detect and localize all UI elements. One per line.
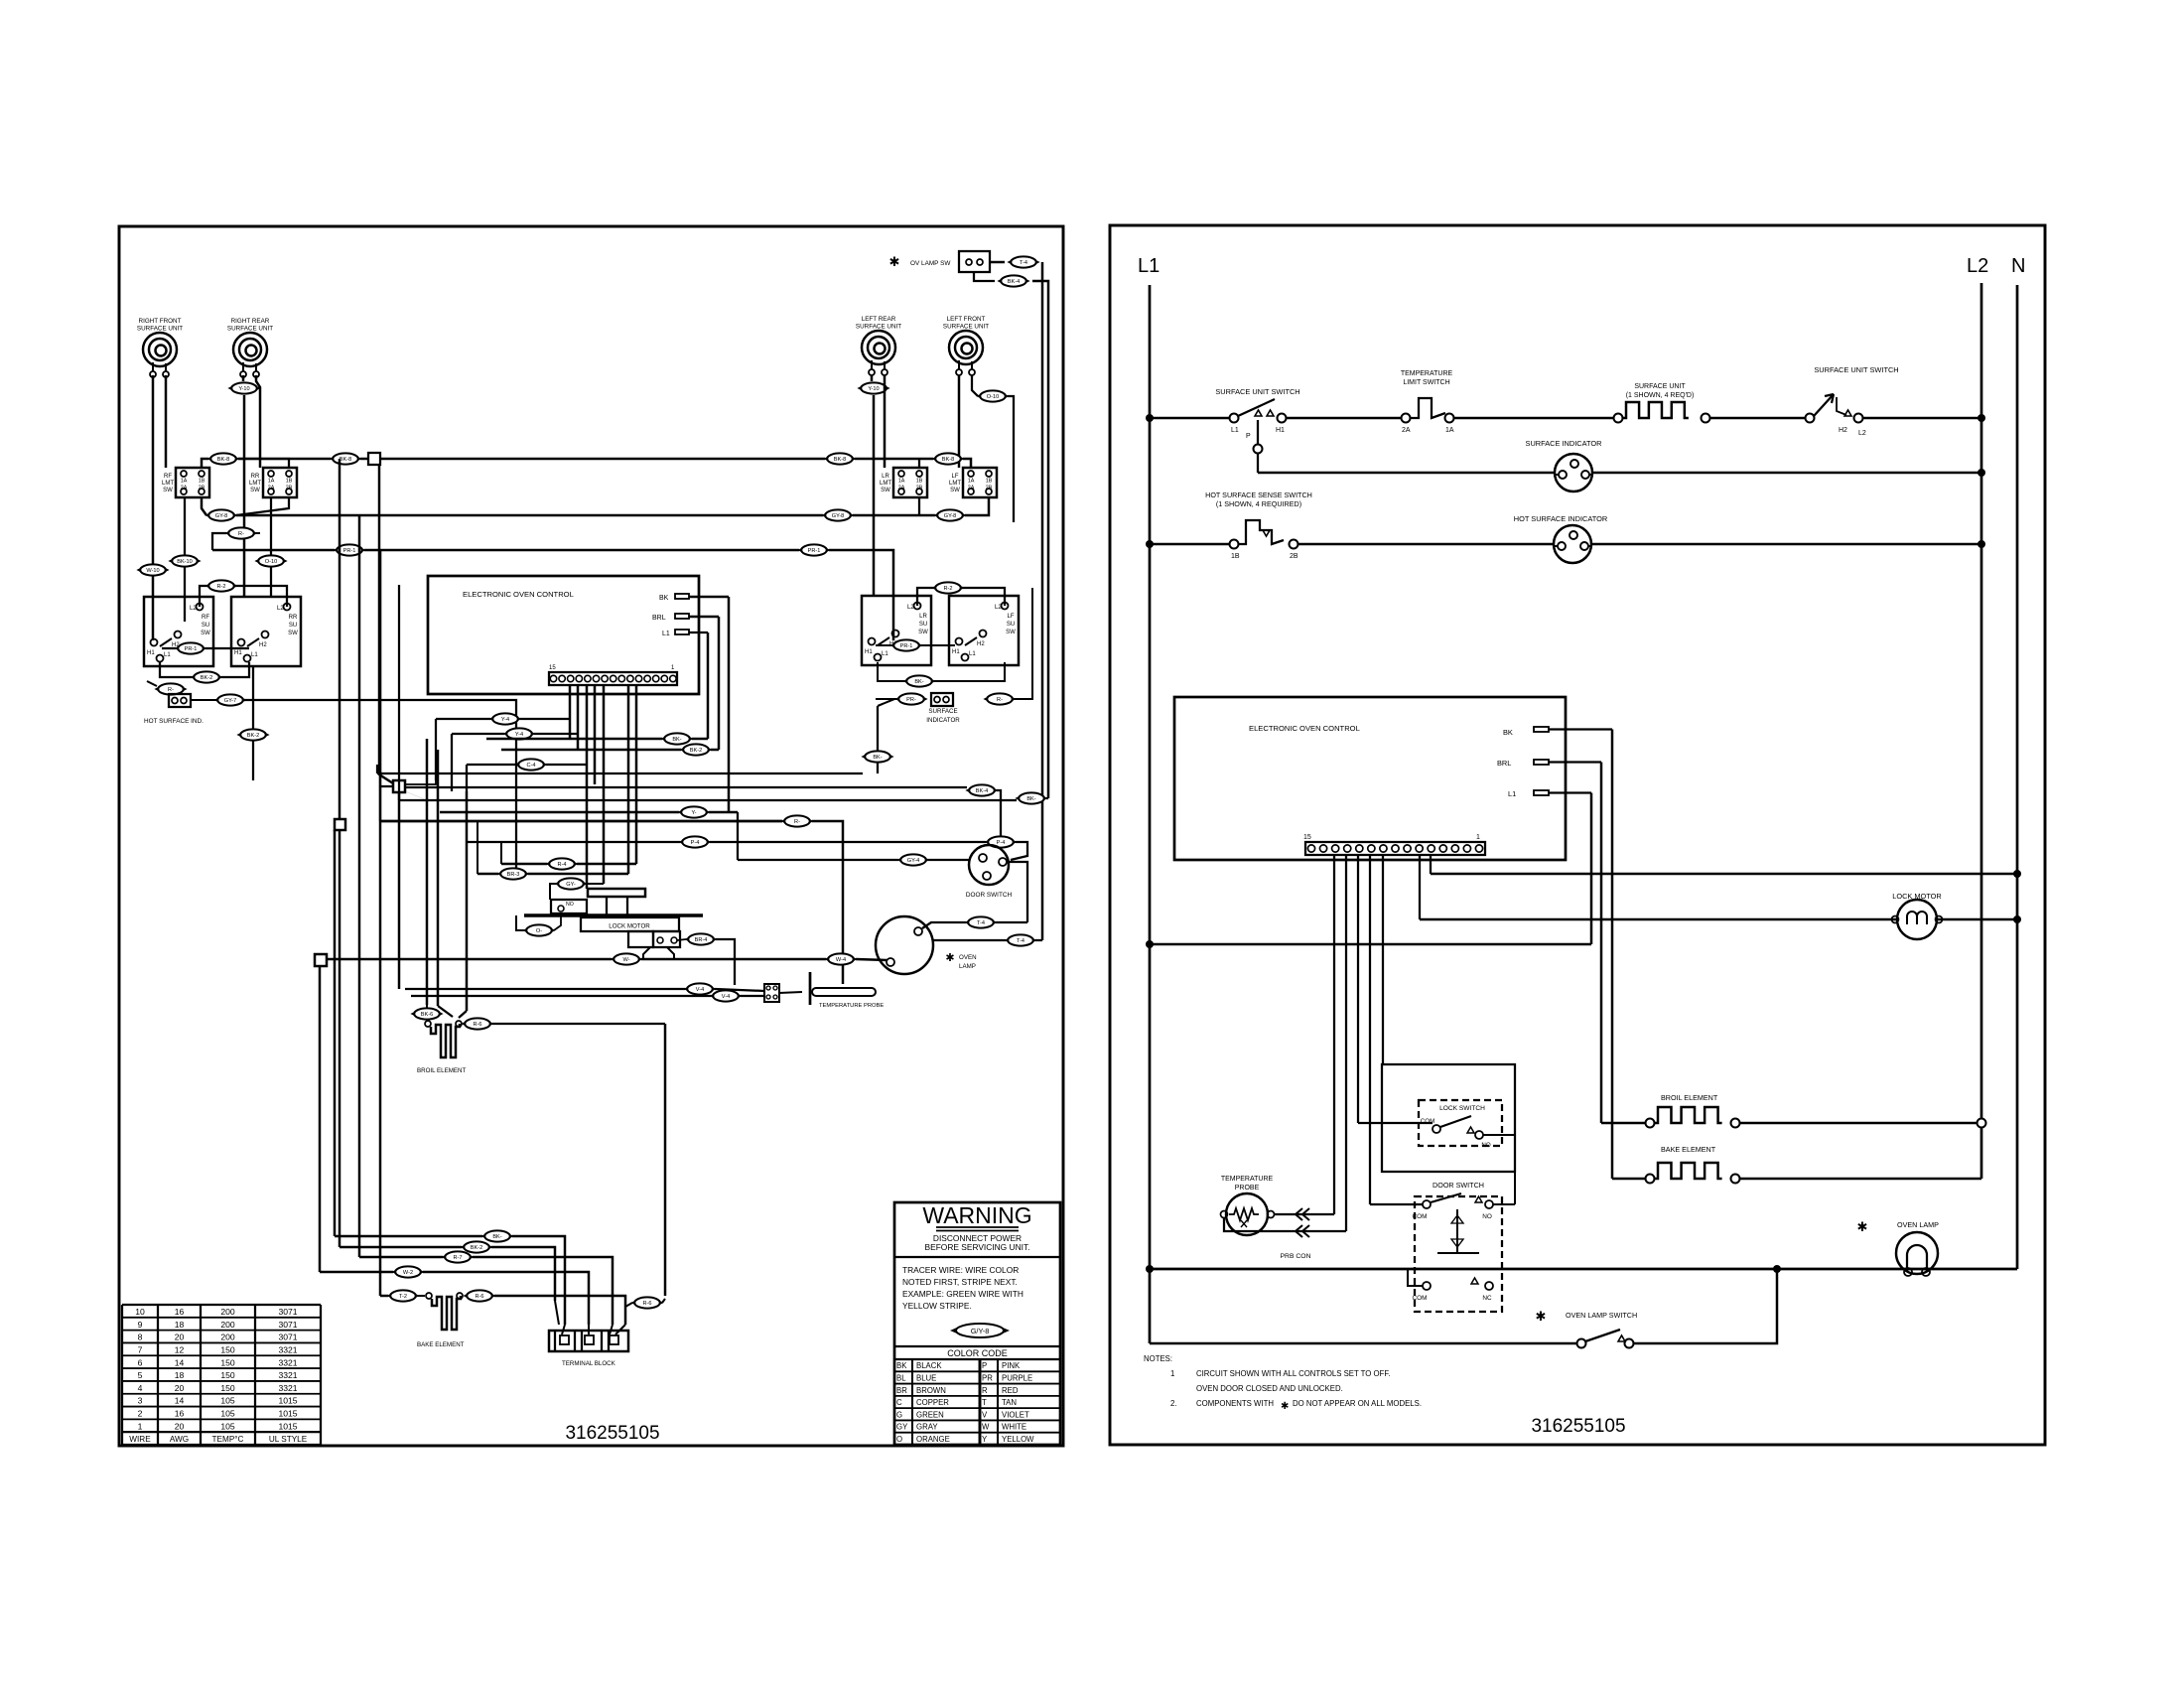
svg-text:20: 20: [175, 1421, 185, 1431]
svg-text:R-: R-: [794, 819, 800, 825]
svg-text:W-: W-: [622, 957, 629, 963]
svg-text:H1: H1: [1276, 427, 1285, 434]
svg-text:BK-8: BK-8: [340, 457, 351, 463]
svg-text:200: 200: [220, 1320, 235, 1330]
svg-text:RF: RF: [202, 615, 209, 621]
svg-text:SW: SW: [201, 631, 210, 636]
svg-text:2A: 2A: [181, 486, 188, 491]
svg-text:PR: PR: [982, 1374, 993, 1383]
svg-text:COLOR CODE: COLOR CODE: [947, 1348, 1008, 1358]
svg-text:PR-: PR-: [906, 697, 916, 703]
svg-text:SURFACE UNIT: SURFACE UNIT: [943, 324, 989, 331]
svg-text:OVEN LAMP: OVEN LAMP: [1897, 1220, 1939, 1229]
svg-text:150: 150: [220, 1383, 235, 1393]
svg-text:NC: NC: [1482, 1295, 1492, 1302]
svg-text:105: 105: [220, 1396, 235, 1406]
svg-text:H1: H1: [234, 650, 242, 656]
svg-text:O: O: [896, 1435, 902, 1444]
svg-text:1015: 1015: [278, 1409, 297, 1419]
svg-text:BK-2: BK-2: [690, 748, 702, 754]
svg-text:BR: BR: [896, 1386, 907, 1395]
svg-text:O-10: O-10: [265, 559, 277, 565]
svg-text:1A: 1A: [181, 479, 188, 485]
svg-text:BK-8: BK-8: [942, 457, 954, 463]
svg-text:✱: ✱: [1281, 1401, 1289, 1412]
svg-text:L2: L2: [190, 606, 197, 612]
svg-text:NOTES:: NOTES:: [1144, 1354, 1172, 1363]
svg-text:N: N: [2011, 255, 2025, 277]
svg-text:BK-8: BK-8: [834, 457, 846, 463]
svg-text:L1: L1: [1138, 255, 1160, 277]
svg-text:GY-8: GY-8: [944, 513, 957, 519]
svg-text:BROWN: BROWN: [916, 1386, 946, 1395]
svg-text:SURFACE UNIT SWITCH: SURFACE UNIT SWITCH: [1215, 387, 1299, 396]
svg-text:SURFACE UNIT: SURFACE UNIT: [856, 324, 901, 331]
svg-text:BK: BK: [1503, 728, 1513, 737]
svg-text:DO NOT APPEAR ON ALL MODELS.: DO NOT APPEAR ON ALL MODELS.: [1293, 1399, 1422, 1408]
svg-text:200: 200: [220, 1307, 235, 1317]
svg-text:4: 4: [138, 1383, 143, 1393]
svg-text:150: 150: [220, 1357, 235, 1367]
svg-text:DOOR SWITCH: DOOR SWITCH: [1433, 1181, 1484, 1190]
svg-text:PR-1: PR-1: [343, 548, 356, 554]
svg-text:GY-8: GY-8: [215, 513, 228, 519]
svg-text:HOT SURFACE IND.: HOT SURFACE IND.: [144, 718, 204, 725]
svg-text:BK-2: BK-2: [471, 1245, 482, 1251]
svg-text:15: 15: [1303, 834, 1311, 841]
svg-text:Y-10: Y-10: [238, 386, 249, 392]
svg-text:C: C: [896, 1398, 902, 1407]
svg-text:OV LAMP SW: OV LAMP SW: [910, 260, 951, 267]
svg-text:TAN: TAN: [1002, 1398, 1017, 1407]
svg-text:WHITE: WHITE: [1002, 1423, 1026, 1432]
svg-text:RIGHT FRONT: RIGHT FRONT: [139, 318, 182, 325]
svg-text:YELLOW STRIPE.: YELLOW STRIPE.: [902, 1301, 972, 1311]
svg-text:SW: SW: [1006, 630, 1016, 635]
svg-text:BK-: BK-: [492, 1234, 501, 1240]
svg-text:R-2: R-2: [216, 584, 225, 590]
svg-text:2B: 2B: [916, 486, 923, 491]
svg-text:6: 6: [138, 1357, 143, 1367]
svg-text:2A: 2A: [898, 486, 905, 491]
svg-text:RF: RF: [164, 474, 172, 480]
svg-text:RIGHT REAR: RIGHT REAR: [231, 318, 270, 325]
svg-text:L1: L1: [882, 651, 888, 657]
svg-text:NOTED FIRST, STRIPE NEXT.: NOTED FIRST, STRIPE NEXT.: [902, 1277, 1018, 1287]
svg-text:L1: L1: [969, 651, 976, 657]
svg-text:Y-4: Y-4: [515, 732, 523, 738]
svg-text:L1: L1: [662, 631, 670, 637]
svg-text:HOT SURFACE SENSE SWITCH: HOT SURFACE SENSE SWITCH: [1205, 491, 1312, 499]
svg-text:W-2: W-2: [403, 1270, 413, 1276]
svg-text:L1: L1: [164, 652, 171, 658]
svg-text:1B: 1B: [199, 479, 205, 485]
svg-text:PR-1: PR-1: [900, 643, 913, 649]
svg-text:BK-: BK-: [1026, 796, 1035, 802]
svg-text:2.: 2.: [1170, 1399, 1177, 1408]
svg-text:✱: ✱: [1857, 1219, 1868, 1234]
svg-text:V-4: V-4: [722, 994, 730, 1000]
svg-text:COMPONENTS WITH: COMPONENTS WITH: [1196, 1399, 1274, 1408]
svg-text:L2: L2: [277, 606, 284, 612]
svg-text:Y-: Y-: [691, 810, 696, 816]
svg-text:3321: 3321: [278, 1344, 297, 1354]
svg-text:V: V: [982, 1410, 988, 1419]
svg-text:LAMP: LAMP: [959, 963, 976, 970]
svg-text:200: 200: [220, 1333, 235, 1342]
svg-text:SW: SW: [250, 488, 260, 493]
svg-text:BK-: BK-: [672, 737, 681, 743]
svg-text:BLACK: BLACK: [916, 1361, 942, 1370]
svg-text:2B: 2B: [986, 486, 993, 491]
svg-text:LIMIT SWITCH: LIMIT SWITCH: [1403, 379, 1449, 386]
svg-text:2B: 2B: [286, 486, 293, 491]
svg-text:BK-4: BK-4: [1008, 279, 1020, 285]
svg-text:150: 150: [220, 1370, 235, 1380]
svg-text:1A: 1A: [968, 479, 975, 485]
svg-text:3321: 3321: [278, 1383, 297, 1393]
svg-text:TERMINAL BLOCK: TERMINAL BLOCK: [562, 1360, 616, 1367]
svg-text:TEMP°C: TEMP°C: [212, 1435, 244, 1444]
svg-text:SU: SU: [289, 623, 297, 629]
svg-text:BK-8: BK-8: [217, 457, 229, 463]
svg-text:R-: R-: [168, 687, 174, 693]
svg-text:AWG: AWG: [170, 1435, 189, 1444]
svg-text:OVEN: OVEN: [959, 954, 977, 961]
svg-text:T-4: T-4: [1017, 938, 1024, 944]
svg-text:BK-10: BK-10: [177, 559, 193, 565]
svg-text:316255105: 316255105: [1531, 1416, 1625, 1437]
svg-text:2A: 2A: [968, 486, 975, 491]
svg-text:T: T: [982, 1398, 987, 1407]
svg-text:R-: R-: [997, 697, 1003, 703]
svg-text:R-6: R-6: [475, 1294, 483, 1300]
svg-text:GY-8: GY-8: [832, 513, 845, 519]
svg-text:Y-4: Y-4: [501, 717, 509, 723]
svg-text:W-4: W-4: [836, 957, 846, 963]
svg-text:L1: L1: [251, 652, 258, 658]
svg-text:✱: ✱: [889, 254, 900, 269]
svg-text:BK-6: BK-6: [421, 1012, 433, 1018]
svg-text:✱: ✱: [945, 952, 954, 964]
svg-text:PR-1: PR-1: [808, 548, 821, 554]
svg-text:O-10: O-10: [987, 394, 999, 400]
svg-text:DOOR SWITCH: DOOR SWITCH: [966, 892, 1013, 899]
svg-text:COM: COM: [1413, 1295, 1428, 1302]
svg-text:V-4: V-4: [696, 987, 704, 993]
svg-text:P-4: P-4: [997, 840, 1006, 846]
svg-text:SURFACE UNIT: SURFACE UNIT: [1634, 383, 1686, 390]
svg-text:LOCK MOTOR: LOCK MOTOR: [609, 923, 650, 930]
svg-text:3: 3: [138, 1396, 143, 1406]
svg-text:EXAMPLE: GREEN WIRE WITH: EXAMPLE: GREEN WIRE WITH: [902, 1289, 1024, 1299]
svg-text:BL: BL: [896, 1374, 906, 1383]
svg-text:BAKE ELEMENT: BAKE ELEMENT: [417, 1341, 465, 1348]
svg-text:8: 8: [138, 1333, 143, 1342]
svg-text:BRL: BRL: [652, 615, 666, 622]
svg-text:NO: NO: [566, 902, 574, 908]
svg-text:✱: ✱: [1536, 1309, 1547, 1324]
svg-text:R-: R-: [238, 531, 244, 537]
svg-text:SW: SW: [288, 631, 298, 636]
svg-text:LOCK MOTOR: LOCK MOTOR: [1892, 892, 1942, 901]
svg-text:1A: 1A: [1445, 427, 1454, 434]
svg-text:TRACER WIRE: WIRE COLOR: TRACER WIRE: WIRE COLOR: [902, 1265, 1019, 1275]
svg-text:BK: BK: [659, 595, 669, 602]
svg-text:SURFACE UNIT SWITCH: SURFACE UNIT SWITCH: [1814, 365, 1898, 374]
svg-text:LR: LR: [919, 614, 927, 620]
svg-text:RR: RR: [289, 615, 298, 621]
svg-text:RR: RR: [251, 474, 260, 480]
svg-text:1B: 1B: [286, 479, 293, 485]
svg-text:2B: 2B: [1290, 553, 1298, 560]
svg-text:2B: 2B: [199, 486, 205, 491]
svg-text:BK-2: BK-2: [201, 675, 212, 681]
svg-text:H2: H2: [259, 642, 267, 648]
svg-text:SURFACE UNIT: SURFACE UNIT: [227, 326, 273, 333]
svg-text:316255105: 316255105: [565, 1423, 659, 1444]
svg-text:L2: L2: [907, 605, 914, 611]
svg-text:2A: 2A: [1402, 427, 1411, 434]
svg-text:L1: L1: [1231, 427, 1239, 434]
svg-text:14: 14: [175, 1396, 185, 1406]
svg-text:1B: 1B: [986, 479, 993, 485]
svg-text:Y: Y: [982, 1435, 988, 1444]
svg-text:1A: 1A: [268, 479, 275, 485]
svg-text:15: 15: [549, 665, 556, 671]
svg-text:BK-2: BK-2: [247, 733, 259, 739]
svg-text:COM: COM: [1413, 1213, 1428, 1220]
svg-text:G: G: [896, 1410, 902, 1419]
svg-text:20: 20: [175, 1333, 185, 1342]
svg-text:BLUE: BLUE: [916, 1374, 936, 1383]
svg-text:C-4: C-4: [526, 763, 535, 769]
svg-text:12: 12: [175, 1344, 185, 1354]
svg-text:NO: NO: [1482, 1213, 1492, 1220]
svg-text:105: 105: [220, 1409, 235, 1419]
svg-text:LMT: LMT: [880, 481, 891, 487]
svg-text:SU: SU: [1007, 622, 1015, 628]
svg-text:3071: 3071: [278, 1320, 297, 1330]
svg-text:INDICATOR: INDICATOR: [926, 717, 960, 724]
svg-text:SURFACE UNIT: SURFACE UNIT: [137, 326, 183, 333]
svg-text:R-7: R-7: [453, 1255, 462, 1261]
svg-text:PRB CON: PRB CON: [1281, 1253, 1311, 1260]
svg-text:H1: H1: [147, 650, 155, 656]
svg-text:3321: 3321: [278, 1370, 297, 1380]
svg-text:150: 150: [220, 1344, 235, 1354]
svg-text:T-2: T-2: [399, 1294, 407, 1300]
svg-text:LF: LF: [951, 474, 958, 480]
svg-text:SW: SW: [163, 488, 173, 493]
svg-text:R-6: R-6: [473, 1022, 481, 1028]
svg-text:W: W: [982, 1423, 990, 1432]
svg-text:OVEN LAMP SWITCH: OVEN LAMP SWITCH: [1566, 1311, 1637, 1320]
svg-text:18: 18: [175, 1370, 185, 1380]
svg-text:10: 10: [135, 1307, 145, 1317]
svg-text:SW: SW: [881, 488, 890, 493]
svg-text:VIOLET: VIOLET: [1002, 1410, 1029, 1419]
svg-text:2: 2: [138, 1409, 143, 1419]
svg-text:P: P: [982, 1361, 987, 1370]
svg-text:P-4: P-4: [691, 840, 700, 846]
svg-text:14: 14: [175, 1357, 185, 1367]
svg-text:SURFACE: SURFACE: [928, 708, 957, 715]
svg-text:105: 105: [220, 1421, 235, 1431]
svg-text:PINK: PINK: [1002, 1361, 1021, 1370]
svg-text:20: 20: [175, 1383, 185, 1393]
svg-text:2A: 2A: [268, 486, 275, 491]
svg-text:H2: H2: [172, 642, 180, 648]
svg-text:LMT: LMT: [949, 481, 961, 487]
svg-text:5: 5: [138, 1370, 143, 1380]
svg-text:1A: 1A: [898, 479, 905, 485]
svg-text:3071: 3071: [278, 1333, 297, 1342]
svg-text:WIRE: WIRE: [129, 1435, 151, 1444]
svg-text:7: 7: [138, 1344, 143, 1354]
svg-text:R-6: R-6: [642, 1301, 651, 1307]
svg-text:GY-7: GY-7: [224, 698, 237, 704]
svg-text:T-4: T-4: [1020, 260, 1027, 266]
svg-text:1: 1: [1476, 834, 1480, 841]
svg-text:BAKE ELEMENT: BAKE ELEMENT: [1661, 1145, 1716, 1154]
svg-text:3071: 3071: [278, 1307, 297, 1317]
svg-text:GY: GY: [896, 1423, 908, 1432]
svg-text:H2: H2: [977, 641, 985, 647]
svg-text:BROIL ELEMENT: BROIL ELEMENT: [1661, 1093, 1718, 1102]
svg-text:1B: 1B: [1231, 553, 1240, 560]
svg-text:TEMPERATURE PROBE: TEMPERATURE PROBE: [819, 1003, 884, 1009]
svg-text:Y-10: Y-10: [868, 386, 879, 392]
svg-text:NO: NO: [1481, 1142, 1490, 1149]
svg-text:(1 SHOWN, 4 REQUIRED): (1 SHOWN, 4 REQUIRED): [1216, 499, 1301, 508]
svg-text:LOCK SWITCH: LOCK SWITCH: [1439, 1105, 1485, 1112]
svg-text:LF: LF: [1007, 614, 1014, 620]
svg-text:L1: L1: [1508, 789, 1516, 798]
svg-text:TEMPERATURE: TEMPERATURE: [1221, 1176, 1274, 1183]
svg-text:3321: 3321: [278, 1357, 297, 1367]
svg-text:PURPLE: PURPLE: [1002, 1374, 1032, 1383]
svg-text:PR-1: PR-1: [185, 646, 198, 652]
svg-text:W-10: W-10: [146, 568, 159, 574]
svg-text:BK-4: BK-4: [976, 788, 988, 794]
svg-text:RED: RED: [1002, 1386, 1019, 1395]
svg-text:WARNING: WARNING: [922, 1202, 1031, 1228]
svg-text:SURFACE INDICATOR: SURFACE INDICATOR: [1526, 439, 1602, 448]
svg-text:LEFT FRONT: LEFT FRONT: [947, 316, 986, 323]
svg-text:1015: 1015: [278, 1421, 297, 1431]
svg-text:H2: H2: [1839, 427, 1847, 434]
svg-text:9: 9: [138, 1320, 143, 1330]
svg-text:ELECTRONIC OVEN CONTROL: ELECTRONIC OVEN CONTROL: [1249, 724, 1360, 733]
svg-text:1015: 1015: [278, 1396, 297, 1406]
svg-text:SU: SU: [202, 623, 209, 629]
svg-text:T-4: T-4: [977, 920, 985, 926]
svg-text:SW: SW: [950, 488, 960, 493]
svg-text:18: 18: [175, 1320, 185, 1330]
svg-text:GREEN: GREEN: [916, 1410, 944, 1419]
svg-text:LR: LR: [882, 474, 889, 480]
svg-text:BROIL ELEMENT: BROIL ELEMENT: [417, 1067, 467, 1074]
svg-text:OVEN DOOR CLOSED AND UNLOCKED.: OVEN DOOR CLOSED AND UNLOCKED.: [1196, 1384, 1343, 1393]
svg-text:H1: H1: [865, 649, 873, 655]
svg-text:BR-3: BR-3: [507, 872, 520, 878]
svg-text:YELLOW: YELLOW: [1002, 1435, 1034, 1444]
svg-text:BK-: BK-: [873, 755, 882, 761]
svg-text:CIRCUIT SHOWN WITH ALL CONTROL: CIRCUIT SHOWN WITH ALL CONTROLS SET TO O…: [1196, 1369, 1390, 1378]
svg-text:BK: BK: [896, 1361, 907, 1370]
svg-text:R-2: R-2: [943, 586, 952, 592]
svg-text:GY-4: GY-4: [907, 858, 920, 864]
svg-text:(1 SHOWN, 4 REQ'D): (1 SHOWN, 4 REQ'D): [1626, 392, 1695, 399]
svg-text:1: 1: [138, 1421, 143, 1431]
svg-text:G/Y-8: G/Y-8: [971, 1327, 990, 1335]
svg-text:BRL: BRL: [1497, 759, 1511, 768]
svg-text:GRAY: GRAY: [916, 1423, 938, 1432]
svg-text:L2: L2: [1967, 255, 1988, 277]
svg-text:O-: O-: [536, 928, 542, 934]
svg-text:BK-: BK-: [914, 679, 923, 685]
svg-text:BEFORE SERVICING UNIT.: BEFORE SERVICING UNIT.: [925, 1242, 1030, 1252]
svg-text:1B: 1B: [916, 479, 923, 485]
svg-text:SW: SW: [918, 630, 928, 635]
svg-text:L2: L2: [995, 605, 1002, 611]
svg-text:SU: SU: [919, 622, 927, 628]
svg-text:R: R: [982, 1386, 988, 1395]
svg-text:LMT: LMT: [249, 481, 261, 487]
svg-text:L2: L2: [1858, 430, 1866, 437]
svg-text:COPPER: COPPER: [916, 1398, 949, 1407]
svg-text:TEMPERATURE: TEMPERATURE: [1401, 370, 1453, 377]
svg-text:P: P: [1246, 433, 1251, 440]
svg-text:1: 1: [1170, 1369, 1174, 1378]
svg-text:16: 16: [175, 1307, 185, 1317]
svg-text:16: 16: [175, 1409, 185, 1419]
svg-text:ORANGE: ORANGE: [916, 1435, 950, 1444]
svg-text:H1: H1: [952, 649, 960, 655]
svg-text:PROBE: PROBE: [1235, 1185, 1260, 1192]
svg-text:GY-: GY-: [566, 882, 576, 888]
svg-text:BR-4: BR-4: [695, 937, 708, 943]
svg-text:UL STYLE: UL STYLE: [269, 1435, 308, 1444]
svg-text:ELECTRONIC OVEN CONTROL: ELECTRONIC OVEN CONTROL: [463, 590, 574, 599]
svg-text:HOT SURFACE INDICATOR: HOT SURFACE INDICATOR: [1514, 514, 1607, 523]
svg-text:LEFT REAR: LEFT REAR: [862, 316, 896, 323]
svg-text:R-4: R-4: [557, 862, 566, 868]
svg-text:LMT: LMT: [162, 481, 174, 487]
